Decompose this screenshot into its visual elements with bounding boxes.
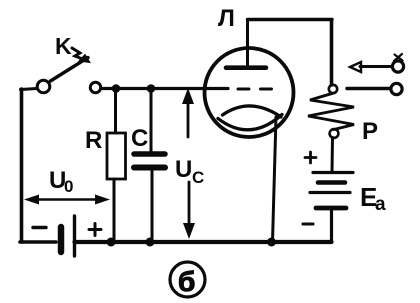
switch K terminal left: [37, 80, 50, 93]
svg-text:P: P: [362, 118, 378, 145]
label + (U0 battery): [89, 224, 101, 236]
tube anode plate: [226, 65, 266, 70]
voltage arrow UC up: [187, 97, 190, 137]
terminal top right upper: [392, 61, 403, 72]
node junction R: [112, 84, 121, 93]
capacitor C lead top: [150, 89, 153, 152]
wire switch left stub: [21, 89, 37, 90]
battery Ea lead bottom: [330, 208, 333, 242]
voltage arrow UC down: [188, 182, 191, 227]
svg-text:K: K: [55, 33, 72, 59]
resistor R lead top: [114, 89, 117, 134]
battery Ea plate3 long: [310, 191, 350, 194]
capacitor C plate bottom: [134, 165, 165, 171]
label + (Ea): [305, 152, 316, 163]
tube cathode arc top: [223, 106, 282, 117]
tube cathode lead: [273, 117, 277, 242]
potentiometer wiper arrow: [360, 65, 392, 68]
resistor R lead bottom: [113, 179, 116, 242]
tube anode lead: [246, 20, 249, 67]
tube envelope: [205, 48, 294, 137]
potentiometer P terminal bottom: [330, 129, 339, 138]
tube grid dashes: [238, 88, 272, 91]
switch K actuate arrow: [72, 48, 85, 60]
switch K terminal right: [90, 82, 100, 92]
wire lower terminal: [347, 87, 391, 90]
node junction cathode bottom: [267, 238, 276, 247]
capacitor C lead bottom: [151, 171, 154, 242]
node junction R bottom: [107, 238, 116, 247]
resistor R body: [107, 133, 126, 179]
svg-text:C: C: [192, 168, 204, 187]
wire right vertical: [330, 20, 334, 86]
node junction C: [147, 84, 156, 93]
svg-text:a: a: [375, 194, 386, 215]
potentiometer P terminal top: [329, 85, 337, 93]
svg-text:C: C: [131, 125, 148, 152]
svg-text:0: 0: [64, 177, 73, 196]
svg-text:Л: Л: [218, 5, 235, 32]
terminal x mark: [394, 54, 403, 61]
wire grid bus: [102, 87, 229, 90]
battery Ea lead top: [331, 138, 335, 173]
capacitor C plate top: [134, 151, 165, 157]
battery U0 plus plate: [73, 216, 76, 256]
wire bottom left: [20, 240, 56, 244]
battery Ea plate4 short: [316, 206, 346, 211]
potentiometer P zigzag: [308, 93, 354, 129]
terminal top right lower: [391, 83, 402, 94]
wire anode top: [248, 18, 333, 21]
label - (Ea): [303, 223, 313, 226]
wire left vertical: [20, 89, 24, 242]
switch K lever: [51, 58, 89, 82]
wire bottom main: [75, 240, 332, 244]
svg-text:U: U: [175, 156, 192, 183]
tube cathode arc bottom: [218, 115, 282, 130]
node junction C bottom: [146, 238, 155, 247]
voltage arrow U0: [30, 198, 104, 201]
svg-text:R: R: [85, 127, 102, 154]
battery Ea plate1 long: [313, 171, 353, 174]
label (b) circle: [170, 262, 205, 297]
battery U0 minus plate: [58, 227, 65, 252]
battery Ea plate2 short: [318, 180, 345, 185]
label - (U0 battery): [33, 226, 46, 229]
svg-text:б: б: [178, 266, 195, 297]
